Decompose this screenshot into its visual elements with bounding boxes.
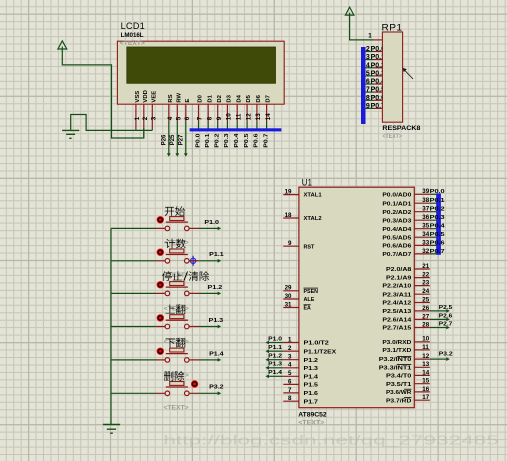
- wire button common rail (vertical): [110, 228, 112, 424]
- ground symbol (LCD): [62, 130, 79, 138]
- svg-text:D6: D6: [256, 94, 262, 102]
- svg-text:E: E: [185, 99, 191, 103]
- svg-text:5: 5: [176, 116, 183, 120]
- svg-text:P2.0/A8: P2.0/A8: [386, 267, 412, 273]
- svg-text:D3: D3: [227, 94, 233, 102]
- svg-text:10: 10: [422, 336, 429, 343]
- svg-text:P1.1: P1.1: [209, 252, 224, 258]
- svg-text:14: 14: [265, 113, 272, 120]
- RP1 body: [382, 32, 402, 122]
- svg-text:LCD1: LCD1: [121, 21, 146, 31]
- svg-text:P3.7/RD: P3.7/RD: [386, 398, 411, 404]
- svg-text:P1.3: P1.3: [304, 366, 319, 372]
- svg-text:P1.3: P1.3: [209, 318, 224, 324]
- svg-text:4: 4: [366, 62, 370, 69]
- svg-text:2: 2: [288, 345, 292, 352]
- svg-text:P2.7: P2.7: [439, 321, 453, 327]
- button B2 label P1.1: [166, 239, 176, 249]
- wire rail to button B6: [111, 392, 156, 394]
- svg-text:2: 2: [366, 46, 370, 53]
- svg-text:P0.5/AD5: P0.5/AD5: [382, 235, 412, 241]
- svg-text:23: 23: [422, 280, 429, 287]
- svg-text:P1.5: P1.5: [304, 383, 319, 389]
- bus U1 P0 (blue vertical): [436, 193, 441, 254]
- svg-text:7: 7: [197, 116, 204, 120]
- svg-text:1: 1: [134, 116, 141, 120]
- svg-text:P3.3/INT1: P3.3/INT1: [379, 365, 412, 371]
- svg-text:P0.2/AD2: P0.2/AD2: [382, 210, 412, 216]
- svg-text:<TEXT>: <TEXT>: [298, 419, 324, 426]
- svg-text:9: 9: [216, 116, 223, 120]
- svg-text:VEE: VEE: [151, 91, 157, 103]
- svg-text:P3.4/T0: P3.4/T0: [386, 374, 412, 380]
- push button B1 (P1.0): [156, 216, 199, 231]
- svg-text:26: 26: [422, 305, 429, 312]
- svg-text:ALE: ALE: [304, 297, 315, 303]
- svg-text:P1.4: P1.4: [268, 370, 283, 376]
- svg-text:P2.6/A14: P2.6/A14: [382, 318, 412, 324]
- svg-text:<TEXT>: <TEXT>: [120, 40, 145, 47]
- svg-text:P1.0: P1.0: [268, 336, 282, 342]
- svg-text:VDD: VDD: [143, 90, 149, 102]
- svg-text:3: 3: [151, 116, 158, 120]
- wire ground to LCD pins 1,3: [71, 115, 153, 131]
- svg-text:RST: RST: [304, 244, 315, 250]
- terminal P3.2: [430, 358, 447, 360]
- LCD1 screen: [127, 47, 276, 83]
- svg-text:<TEXT>: <TEXT>: [164, 405, 189, 412]
- button B3 label P1.2: [162, 271, 172, 281]
- svg-text:6: 6: [288, 378, 292, 385]
- svg-text:P3.6/WR: P3.6/WR: [386, 390, 412, 396]
- svg-text:P1.1/T2EX: P1.1/T2EX: [304, 349, 337, 355]
- svg-text:D5: D5: [246, 94, 252, 102]
- svg-text:http://blog.csdn.net/qq_279324: http://blog.csdn.net/qq_27932485: [163, 434, 498, 448]
- svg-text:P0.7: P0.7: [430, 249, 445, 255]
- svg-text:D1: D1: [207, 94, 213, 102]
- svg-text:P0.7/AD7: P0.7/AD7: [382, 252, 412, 258]
- svg-text:P3.0/RXD: P3.0/RXD: [382, 340, 411, 346]
- svg-text:P1.6: P1.6: [304, 391, 319, 397]
- terminals P1.0-P1.4 at U1 left: [269, 342, 283, 344]
- wires/terminals P26 P25 P27 (RS RW E): [168, 122, 170, 154]
- svg-text:XTAL1: XTAL1: [304, 193, 323, 199]
- svg-text:P0.6: P0.6: [254, 133, 260, 148]
- svg-text:LM016L: LM016L: [121, 32, 144, 39]
- svg-text:1: 1: [368, 33, 372, 40]
- U1 right pin stubs: [414, 194, 430, 400]
- wire button B2 to terminal P1.1: [199, 260, 218, 262]
- LCD1 body: [117, 41, 284, 104]
- svg-text:P3.2: P3.2: [439, 352, 453, 358]
- svg-text:3: 3: [366, 54, 370, 61]
- svg-text:11: 11: [235, 113, 242, 120]
- svg-text:EA: EA: [304, 306, 312, 312]
- svg-text:7: 7: [366, 87, 370, 94]
- wires U1 P0 pins to bus: [430, 194, 437, 254]
- svg-text:P0.0: P0.0: [430, 189, 445, 195]
- svg-text:P0.1: P0.1: [430, 198, 446, 204]
- svg-text:P0.7: P0.7: [263, 133, 269, 148]
- svg-text:RP1: RP1: [382, 22, 403, 32]
- wire VDD from power arrow to LCD pin2: [62, 56, 144, 138]
- bus LCD data (blue): [190, 128, 282, 131]
- svg-text:P2.4/A12: P2.4/A12: [382, 301, 412, 307]
- svg-text:P0.3: P0.3: [430, 215, 446, 221]
- button B1 label P1.0: [165, 207, 174, 216]
- svg-text:22: 22: [422, 272, 429, 279]
- svg-text:13: 13: [422, 361, 429, 368]
- svg-text:15: 15: [422, 378, 429, 385]
- svg-text:6: 6: [184, 116, 191, 120]
- bus RP1 (blue vertical): [361, 47, 366, 124]
- wires LCD data pins to bus: [199, 122, 267, 131]
- RP1 pointer mark: [403, 69, 413, 80]
- ground symbol (buttons): [103, 425, 120, 434]
- push button B6 (P3.2): [156, 380, 199, 395]
- svg-text:P1.2: P1.2: [304, 358, 319, 364]
- origin marker (blue crosshair): [189, 256, 197, 266]
- svg-text:P0.2: P0.2: [430, 207, 445, 213]
- svg-text:8: 8: [288, 395, 292, 402]
- power terminal VDD (top-left arrow): [58, 41, 67, 56]
- svg-text:8: 8: [366, 95, 370, 102]
- terminals P2.5 P2.6 P2.7: [430, 310, 447, 312]
- svg-text:P0.5: P0.5: [244, 133, 250, 148]
- svg-text:P3.5/T1: P3.5/T1: [386, 382, 412, 388]
- push button B4 (P1.3): [156, 314, 199, 329]
- svg-text:<TEXT>: <TEXT>: [382, 133, 402, 140]
- svg-text:3: 3: [288, 354, 292, 361]
- svg-text:D2: D2: [217, 94, 223, 102]
- svg-text:12: 12: [422, 353, 429, 360]
- svg-text:P0.4: P0.4: [234, 133, 240, 148]
- svg-text:VSS: VSS: [135, 91, 141, 103]
- svg-text:10: 10: [226, 113, 233, 120]
- button B5 label P1.4: [165, 339, 174, 348]
- svg-text:11: 11: [422, 344, 429, 351]
- svg-text:2: 2: [142, 116, 149, 120]
- svg-text:P1.4: P1.4: [304, 374, 319, 380]
- svg-text:P0.1: P0.1: [205, 133, 211, 148]
- svg-text:D0: D0: [198, 94, 204, 102]
- svg-text:27: 27: [422, 313, 429, 320]
- wire rail to button B5: [111, 359, 156, 361]
- svg-text:P27: P27: [179, 134, 185, 145]
- svg-text:8: 8: [206, 116, 213, 120]
- svg-text:P3.2: P3.2: [209, 385, 224, 391]
- svg-text:9: 9: [366, 103, 370, 110]
- svg-text:25: 25: [422, 296, 429, 303]
- svg-text:29: 29: [285, 285, 292, 292]
- svg-text:P0.4: P0.4: [430, 224, 446, 230]
- svg-text:13: 13: [255, 113, 262, 120]
- button B6 label P3.2: [164, 371, 173, 381]
- svg-text:9: 9: [288, 240, 292, 247]
- svg-text:P3.2/INT0: P3.2/INT0: [379, 357, 412, 363]
- svg-text:P0.6: P0.6: [430, 240, 446, 246]
- svg-text:P25: P25: [170, 134, 176, 145]
- svg-text:AT89C52: AT89C52: [298, 412, 327, 419]
- svg-text:P2.3/A11: P2.3/A11: [382, 292, 412, 298]
- svg-text:P1.0/T2: P1.0/T2: [304, 341, 330, 347]
- svg-text:5: 5: [366, 71, 370, 78]
- svg-text:21: 21: [422, 263, 429, 270]
- svg-text:P0.0/AD0: P0.0/AD0: [382, 192, 412, 198]
- LCD pin stubs: [136, 104, 267, 128]
- U1 body: [299, 187, 414, 408]
- svg-text:D7: D7: [266, 94, 272, 102]
- wire rail to button B3: [111, 292, 156, 294]
- svg-text:P0.0: P0.0: [195, 133, 201, 148]
- svg-text:P26: P26: [162, 134, 168, 145]
- svg-text:RESPACK8: RESPACK8: [382, 125, 421, 132]
- svg-text:7: 7: [288, 387, 292, 394]
- svg-text:19: 19: [285, 189, 292, 196]
- push button B5 (P1.4): [156, 348, 199, 363]
- push button B2 (P1.1): [156, 249, 199, 264]
- wire rail to button B4: [111, 326, 156, 328]
- svg-text:14: 14: [422, 369, 429, 376]
- svg-text:P2.5/A13: P2.5/A13: [382, 309, 412, 315]
- svg-text:P0.4/AD4: P0.4/AD4: [382, 227, 412, 233]
- svg-text:P0.3/AD3: P0.3/AD3: [382, 218, 412, 224]
- svg-text:P1.7: P1.7: [304, 399, 319, 405]
- push button B3 (P1.2): [156, 281, 199, 296]
- button B4 label P1.3: [165, 304, 174, 313]
- svg-text:D4: D4: [236, 94, 242, 102]
- svg-text:4: 4: [288, 362, 292, 369]
- svg-text:P0.5: P0.5: [430, 232, 446, 238]
- wire power to RP1 pin 1: [350, 22, 374, 40]
- wire button B5 to terminal P1.4: [199, 359, 218, 361]
- svg-text:P1.1: P1.1: [268, 345, 283, 351]
- wire button B1 to terminal P1.0: [199, 227, 218, 229]
- wire button B6 to terminal P3.2: [199, 392, 218, 394]
- wire button B4 to terminal P1.3: [199, 326, 218, 328]
- svg-text:P1.2: P1.2: [208, 285, 223, 291]
- svg-text:17: 17: [422, 394, 429, 401]
- svg-text:RS: RS: [168, 94, 174, 102]
- svg-text:RW: RW: [176, 92, 182, 102]
- svg-text:P0.2: P0.2: [215, 133, 221, 148]
- svg-text:P2.6: P2.6: [439, 313, 453, 319]
- svg-text:31: 31: [285, 301, 292, 308]
- svg-text:P2.2/A10: P2.2/A10: [382, 284, 412, 290]
- svg-text:4: 4: [167, 116, 174, 120]
- svg-text:U1: U1: [302, 178, 313, 188]
- wire rail to button B2: [111, 260, 156, 262]
- power terminal (RP1 arrow): [345, 7, 354, 22]
- svg-text:P1.3: P1.3: [268, 362, 283, 368]
- svg-text:P0.1/AD1: P0.1/AD1: [382, 201, 412, 207]
- svg-text:P3.1/TXD: P3.1/TXD: [382, 348, 411, 354]
- wires LCD pins 1,2,3 to rails: [136, 129, 152, 139]
- svg-text:30: 30: [285, 293, 292, 300]
- svg-text:PSEN: PSEN: [304, 289, 318, 295]
- svg-text:28: 28: [422, 321, 429, 328]
- svg-text:5: 5: [288, 370, 292, 377]
- U1 left pin stubs: [283, 195, 299, 402]
- svg-text:18: 18: [285, 212, 292, 219]
- wire rail to button B1: [111, 227, 156, 229]
- svg-text:P2.7/A15: P2.7/A15: [382, 326, 412, 332]
- svg-text:12: 12: [245, 113, 252, 120]
- svg-text:6: 6: [366, 79, 370, 86]
- RP1 pin 1 stub: [374, 39, 383, 41]
- svg-text:P2.5: P2.5: [439, 305, 453, 311]
- wire button B3 to terminal P1.2: [199, 292, 218, 294]
- svg-text:P2.1/A9: P2.1/A9: [386, 276, 412, 282]
- svg-text:XTAL2: XTAL2: [304, 216, 323, 222]
- RP1 pins 2-9 wires: [365, 51, 374, 53]
- svg-text:P1.4: P1.4: [209, 351, 224, 357]
- svg-text:16: 16: [422, 386, 429, 393]
- svg-text:P0.3: P0.3: [224, 133, 230, 148]
- svg-text:P1.2: P1.2: [268, 354, 282, 360]
- svg-text:P0.6/AD6: P0.6/AD6: [382, 244, 412, 250]
- svg-text:1: 1: [288, 336, 292, 343]
- svg-text:24: 24: [422, 288, 429, 295]
- svg-text:P1.0: P1.0: [204, 220, 219, 226]
